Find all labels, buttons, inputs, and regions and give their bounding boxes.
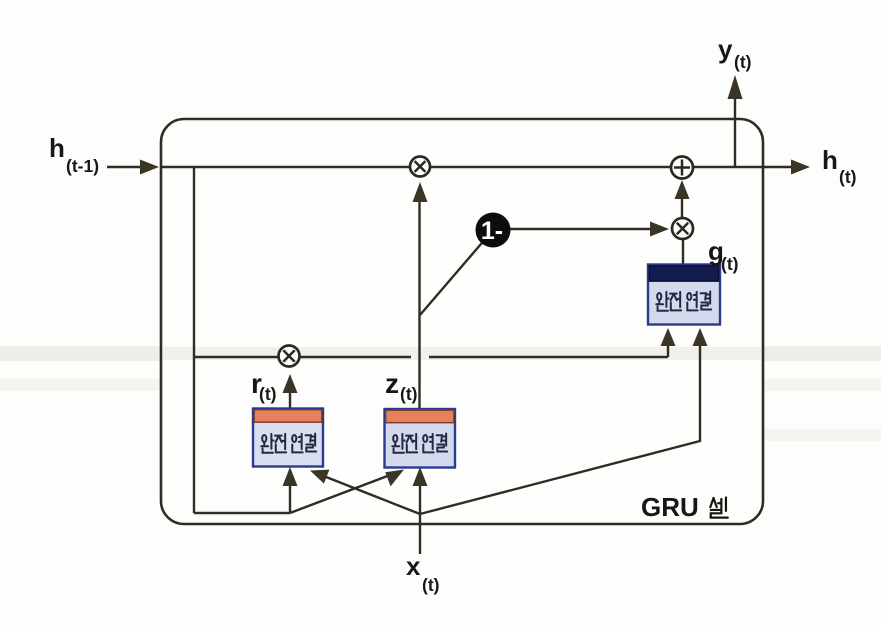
wire: branch to 1- node [420,230,493,315]
svg-text:(t): (t) [422,575,439,595]
svg-text:(t): (t) [259,384,276,404]
svg-text:(t): (t) [839,167,856,187]
wire: g box to gate multiply [682,240,684,264]
svg-text:h: h [822,145,838,175]
svg-text:x: x [406,551,421,581]
scan bands inside cell (decorative) [163,347,761,360]
arrow diag into z box [385,470,404,487]
arrow y(t) [728,75,743,99]
arrow h(t) output [791,160,810,175]
arrow into g box left [661,328,676,346]
svg-text:(t): (t) [721,254,738,274]
wire: gate multiply up to add [681,198,683,218]
arrow into gate multiply [650,222,669,237]
svg-text:y: y [718,34,733,64]
arrow into g box right [693,328,708,346]
g gate label: 완전 연결 [656,291,711,310]
wire: bottom recurrent line [194,484,290,513]
arrow diag into r box [310,470,329,484]
svg-text:(t): (t) [400,384,417,404]
z gate label: 완전 연결 [392,433,447,452]
fully-connected box g gate [648,265,720,325]
fully-connected box z gate [385,409,456,468]
wire: y(t) branch up [734,92,736,167]
wire: x to r diagonal [316,473,420,514]
wire: z vertical up to top multiply [418,200,420,409]
arrow r output [283,374,298,393]
wire: 1- to gate multiply [505,228,653,230]
arrow into z box [413,467,428,486]
wire: h(t-1) input segment [107,166,146,168]
fully-connected box r gate [253,409,323,467]
GRU cell boundary [161,119,763,524]
multiply node gate output [672,218,693,239]
wire: x to g diagonal then up [420,344,700,514]
wire: x to z vertical [419,484,421,514]
svg-text:1-: 1- [481,217,503,245]
wire: x(t) input vertical [419,514,421,554]
svg-text:(t): (t) [734,52,751,72]
arrow into r box [283,467,298,486]
wire: r box up arrow shaft [289,392,291,409]
svg-text:(t-1): (t-1) [66,156,99,176]
arrow into top multiply [413,182,428,202]
wire: inner mid line to g box (with hop gap at z line) [194,342,668,357]
1- node [476,213,511,248]
wire: recurrent diagonal to z box [290,472,398,513]
multiply node on h line [410,157,430,177]
scan background bands (decorative) [0,346,881,361]
svg-text:GRU: GRU [641,492,699,522]
svg-text:z: z [385,368,399,399]
wire: main h line across cell to output [161,166,794,168]
r gate label: 완전 연결 [261,433,316,452]
arrow into cell [140,160,159,175]
arrow into add [675,180,690,199]
multiply node reset gate [279,346,300,367]
svg-text:h: h [49,133,65,163]
wire: left vertical recurrent branch [193,167,195,513]
add node on h line [671,157,693,179]
